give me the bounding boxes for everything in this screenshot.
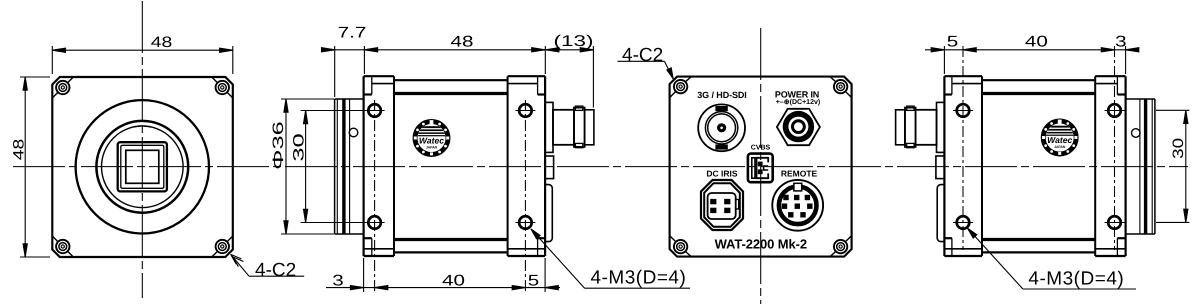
rear screw top-right [830,77,852,98]
set screw hole on barrel [349,128,358,137]
rear plate (view4) [944,76,982,256]
svg-text:4-C2: 4-C2 [255,260,296,281]
dimension 30 (view2) [301,111,369,223]
lens barrel (view4) [1126,99,1155,234]
svg-text:DC IRIS: DC IRIS [706,169,738,179]
CVBS connector bump (side) [545,156,554,179]
lens mount outer circle [76,100,209,233]
BNC connector 3G/HD-SDI [698,104,745,151]
dimension phi36 (view2) [281,99,334,234]
BNC ring (view4) [905,108,916,147]
M3 screw hole front-bottom [365,216,385,229]
label 4-C2 (view3) with leader [618,61,674,79]
svg-text:5: 5 [947,34,958,51]
label 4-M3(D=4) (view2) with leader [531,229,690,288]
sensor window middle square [121,145,164,188]
C-mount inner circle [102,126,184,208]
front plate (view4) [1095,76,1125,256]
svg-text:7.7: 7.7 [338,25,367,42]
svg-text:30: 30 [1170,138,1187,159]
svg-text:5: 5 [528,273,539,290]
M3 screw hole front-bottom (view4) [1105,216,1125,229]
svg-text:48: 48 [11,139,28,161]
dimension 30 right (view4) [1156,110,1189,222]
svg-text:4-M3(D=4): 4-M3(D=4) [591,268,687,289]
dimension 5 / 40 / 3 top (view4) [925,46,1139,74]
svg-text:(13): (13) [554,33,594,50]
BNC connector (side): flange [545,102,553,152]
M3 screw hole front-top (view4) [1105,104,1125,117]
corner screw M3 top-right [212,77,233,98]
svg-text:48: 48 [451,34,474,51]
corner screw M3 bottom-right [212,236,233,257]
svg-text:WAT-2200 Mk-2: WAT-2200 Mk-2 [715,236,807,251]
Watec logo (side view 4) [1041,119,1078,156]
M3 screw hole front-top [365,104,385,117]
Watec logo (side view 2) [413,120,450,157]
BNC tip (view4) [896,110,905,145]
lens barrel phi36 (side) [335,99,364,234]
svg-text:+–⊕(DC+12v): +–⊕(DC+12v) [776,98,820,106]
front plate (side) [364,76,394,256]
REMOTE mini-DIN connector [772,180,823,231]
svg-text:Φ36: Φ36 [270,121,287,170]
svg-text:3: 3 [332,273,343,290]
global horizontal centerline [13,166,1188,168]
dimension 7.7 / 48 / (13) top (view2) [322,46,594,108]
C-mount thread circle [96,121,188,213]
label 4-M3(D=4) (view4) with leader [968,228,1136,289]
POWER IN jack [777,109,820,145]
BNC tip [585,110,594,145]
svg-text:30: 30 [291,133,308,161]
rear screw bottom-left [670,236,692,257]
BNC barrel (view4) [916,110,937,145]
front view body outline (48x48 plate, chamfered corners) [52,77,233,257]
M3 screw hole rear-top (view4) [953,104,973,117]
rear screw bottom-right [830,236,852,257]
dimension 48 left (view1) [20,77,50,257]
svg-text:48: 48 [151,34,173,51]
svg-text:40: 40 [442,273,465,290]
corner screw M3 top-left [52,77,73,98]
rear plate (side) [508,76,545,256]
screw hole centerline front [374,100,376,292]
CVBS connector bump (view4) [936,156,945,179]
M3 screw hole rear-bottom (view4) [953,216,973,229]
svg-text:40: 40 [1025,34,1048,51]
BNC flange (view4) [937,102,945,152]
set screw hole on barrel (view4) [1132,129,1141,138]
dimension 3 / 40 / 5 bottom (view2) [326,258,560,292]
svg-text:3: 3 [1115,34,1126,51]
M3 screw hole rear-bottom [515,216,535,229]
svg-text:4-M3(D=4): 4-M3(D=4) [1028,269,1124,290]
corner screw M3 bottom-left [52,236,73,257]
sensor window inner square [126,150,159,183]
lower connectors bump (view4) [937,185,944,242]
front view vertical centerline [141,1,143,298]
DC IRIS connector [701,180,743,230]
dimension 48 top (view1) [52,46,233,74]
svg-text:CVBS: CVBS [751,145,771,152]
rear panel outline (48x48, chamfered corners) [670,77,852,257]
BNC barrel [553,110,574,145]
screw hole centerline rear (view4) [962,46,964,250]
sensor window outer square [118,142,167,191]
svg-text:3G / HD-SDI: 3G / HD-SDI [697,90,746,100]
screw hole centerline front (view4) [1114,46,1116,250]
svg-text:REMOTE: REMOTE [781,169,818,179]
rear view vertical centerline [760,28,762,304]
screw hole centerline rear [524,100,526,292]
BNC ring [574,108,585,147]
lower connectors bump (side) [545,185,552,242]
M3 screw hole rear-top [515,104,535,117]
svg-text:4-C2: 4-C2 [622,45,663,66]
label 4-C2 (view1) with leader [231,254,305,276]
CVBS connector [748,154,773,183]
svg-text:POWER IN: POWER IN [775,90,819,100]
BNC bayonet lugs [575,106,582,110]
body extrusion (side) [394,80,508,252]
body extrusion (view4) [982,80,1095,252]
rear screw top-left [670,77,692,98]
BNC bayonet lugs (view4) [907,106,914,110]
